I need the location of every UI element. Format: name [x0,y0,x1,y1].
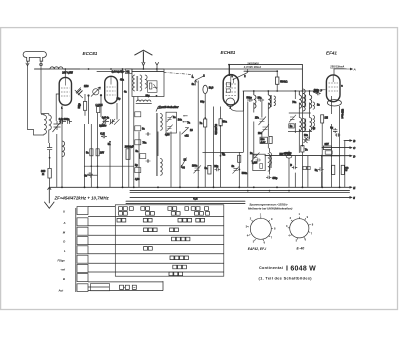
trimmer C7 row arrows [102,119,120,125]
trimmer C13 [262,125,270,134]
wire extra v 101 [100,95,102,117]
core lines FM transformer [136,76,139,91]
trimmer C18 100n [194,165,202,173]
switch S4 contact a [233,78,235,80]
svg-text:ECC81: ECC81 [83,51,98,56]
wire v243 [243,91,245,152]
junction dot antenna node [49,157,51,159]
svg-text:0,1μ 200μ: 0,1μ 200μ [59,119,70,121]
variable capacitor CV1 arrow [91,87,101,97]
svg-text:250/13kmA: 250/13kmA [329,64,344,68]
antenna arrowhead left [26,63,29,66]
wire extra h 175 [85,174,98,176]
wire IF rail [243,90,319,92]
wire table top line 1 [126,200,245,202]
capacitor C17 450p [266,176,272,179]
tube V4 anode lead [332,75,334,82]
wafer square row9 [77,284,88,292]
svg-text:1μ/25ν: 1μ/25ν [99,126,107,128]
IF1 coil small c [274,96,276,106]
switch bank row line 2 [88,225,224,227]
wire v321.6 low [321,156,323,188]
terminal C arrow [349,147,352,149]
svg-text:L: L [64,249,66,253]
wire v309.5 [309,103,311,139]
wafer square row3 [77,227,88,235]
switch bank top ladder [88,205,115,207]
tube V4 EF41 envelope [326,75,340,102]
tube V4 base ellipse [327,100,341,106]
svg-text:I 6048 W: I 6048 W [286,265,316,272]
IF2 core [304,95,307,107]
resistor R11 [269,136,272,143]
wire FM box left down [133,97,135,188]
coil L7 FM c [145,75,147,88]
wire v 220.5 [220,107,222,188]
resistor R13 [208,165,211,174]
svg-text:1M: 1M [325,117,328,120]
wire tube V1 cathode down [61,106,63,188]
junction dot mid link a [90,165,92,167]
svg-text:ECH81: ECH81 [221,50,236,55]
svg-text:14a: 14a [178,118,183,121]
junction dots ground bus [61,186,63,188]
variable capacitor CV1 [93,89,99,95]
terminal E arrow [350,186,353,188]
box converter [253,154,265,170]
svg-text:4,00: 4,00 [165,133,170,136]
switch bank row line 7 [88,271,224,273]
coil L8 ferrite rod [136,100,152,103]
wire extra v 88.5 [88,96,90,125]
svg-text:FD/ge: FD/ge [58,258,66,262]
ground symbol main [44,187,54,208]
capacitor C6 3n [87,172,93,177]
junction dot 5a node [220,155,222,157]
IF1 coil top b [268,91,270,108]
capacitor C23 [335,133,340,137]
tube V2 grid dashes [107,87,116,95]
wafer square row4 [77,237,88,245]
box 1a [289,124,294,128]
diode D4 [304,139,308,143]
aut box link [124,286,136,288]
svg-text:0,94•2,05μ: 0,94•2,05μ [112,70,125,73]
wafer square row6 [77,255,88,263]
capacitor C25 5n [318,167,324,171]
wire v302.4 low [301,91,303,187]
switch S2 arm [182,127,189,134]
box converter inner cap [256,158,262,162]
wire h IF low [288,131,312,133]
svg-text:Ferrit-Schalter: Ferrit-Schalter [159,105,180,109]
contact boxes row5 [144,247,153,251]
svg-text:500Ω: 500Ω [280,79,288,83]
wire v247.8 [247,102,249,188]
junction dot mid link b [97,165,99,167]
coil L14 ratio det c [313,116,315,130]
core lines L9 [155,113,158,176]
wire h IF mid [289,112,311,114]
wire v339.6 [339,106,341,187]
switch bank row line 6 [88,262,224,264]
wafer square row8 [77,274,88,282]
component box small a [135,112,141,117]
wire line 5 [130,196,350,198]
switch S3 arm [195,76,205,81]
contact boxes row7 [173,265,187,269]
wire antenna right drop [40,61,42,113]
IF2 coil b [310,91,312,108]
tuning box right [166,112,177,133]
junction dot rail a [276,90,278,92]
trimmer C4 osc [75,88,83,99]
wire ECH top feed [228,65,231,76]
trimmer C28 inside [167,116,173,123]
junction dot 5a [109,141,111,143]
box 02u [325,151,332,154]
tube base EAF42 ticks [247,216,273,241]
wire vertical right HT [301,65,303,91]
wire EF41 anode up [334,69,347,75]
wire osc v2 [90,124,92,187]
junction dot EF41 top [333,68,335,70]
svg-text:E–40: E–40 [297,247,305,251]
tube V4 grid dashes [329,83,339,91]
junction dots misc [204,117,206,119]
wire line B [344,140,350,142]
tube base diagram EAF42 circle [250,218,271,239]
tube V1 anode lead [64,78,66,86]
svg-text:100p: 100p [314,89,320,92]
component box small c [135,140,141,145]
switch S2 contact dots [183,115,184,116]
contact boxes row1 upper [119,207,209,211]
wire mid h link [84,165,134,167]
wire extra v 117 [116,103,118,120]
wire box 180 down [179,132,181,188]
wire v331.4 [330,96,332,187]
wire trimmer drop [56,134,58,187]
junction dots top bus [88,68,90,70]
tube V3 grid dashes [226,84,237,96]
resistor R9 [219,119,222,126]
svg-text:500n: 500n [242,173,248,175]
wire cathode branch [49,153,51,168]
svg-text:245/290V: 245/290V [246,61,259,65]
wire ground bus [50,186,350,188]
tube V2 anode lead [110,77,112,85]
wire v307.9 [307,156,309,188]
switch bank bottom ladder 1 [88,281,163,283]
IF1 core [270,95,273,107]
component box small e [135,168,141,173]
capacitor C22 0u [333,128,337,133]
coil L2 antenna primary [41,114,46,135]
tube V3 anode lead [226,75,231,93]
wire box 171 down [170,132,172,188]
trimmer C20 3n [233,166,240,174]
coil L12 ratio det a [303,89,305,111]
svg-text:ZF=454/472kHz + 10,7MHz: ZF=454/472kHz + 10,7MHz [54,195,110,200]
wire v 213.5 [213,107,215,188]
svg-text:EAF42, EF-I: EAF42, EF-I [248,247,266,251]
switch bank outer rect [115,205,224,276]
wire v289 low [288,151,290,188]
coil L5 FM a [133,75,135,91]
capacitor C27 cl [146,159,151,162]
svg-text:D: D [63,240,65,244]
dipole FM antenna [134,50,152,63]
svg-text:C,N: C,N [193,197,197,200]
inner box FM [148,81,158,93]
trimmer C1 padder [53,121,61,132]
resistor R5 [96,149,99,156]
trimmer C12 [259,117,267,126]
capacitor C24 ef cath [292,166,298,170]
wire osc v3 [97,113,99,188]
resistor R3 [97,107,100,113]
capacitor C2 1n [47,143,52,153]
wire ECH column 198 [197,81,199,188]
wire v295 low [294,156,296,188]
resistor R8 [204,119,207,127]
wire h 152.4 [203,151,244,153]
IF2 coil a [299,91,301,108]
contact boxes row6 [170,256,188,260]
switch bank bottom ladder 2 [88,281,163,291]
svg-text:E: E [353,186,355,190]
dash-dot tuning link [164,72,194,74]
capacitor C19 20p [215,167,221,171]
capacitor C21 100p [316,92,321,96]
svg-text:4,7/13V 28mA: 4,7/13V 28mA [243,65,261,69]
resistor R10 500ohm [276,77,279,84]
svg-text:50V: 50V [280,154,285,156]
tube base E40 ticks [288,217,311,240]
coil L6 FM b [140,75,142,91]
resistor R1 300ohm [48,169,51,179]
capacitor C5 pair 4n [103,119,115,124]
svg-text:10n: 10n [258,97,263,99]
wire v262 [261,102,263,142]
wire v253.8 low [253,103,255,158]
wire extra v 110 [109,142,111,188]
wire v322 low [321,123,323,187]
component box small b [135,126,141,131]
wire line D [322,155,340,157]
capacitor C10 500p [247,98,253,102]
svg-text:1,1/4,5: 1,1/4,5 [96,104,104,107]
svg-text:10n: 10n [304,135,309,137]
antenna AM mast [23,52,46,62]
coil L13 ratio det b [313,102,315,109]
pin arrow P [321,89,326,91]
svg-text:(1. Teil des Schaltbildes): (1. Teil des Schaltbildes) [259,277,313,281]
switch bank row line 3 [88,234,224,236]
svg-text:B: B [353,139,355,143]
pin numbers E40 [286,212,314,242]
tube V3 ECH81 envelope [223,75,238,105]
resistor R15 60V [323,146,331,150]
resistor R6 200 [126,149,130,160]
wire top bus [34,68,302,70]
capacitor C8 CM [101,135,107,138]
wire R1 to bus [49,178,51,187]
resistor R16 [332,165,335,174]
core L11 [269,155,272,168]
switch bank row line 5 [88,253,224,255]
junction dot v239 [238,169,240,171]
tube V1 ECC81 triode a envelope [59,77,71,105]
wire ECH base to rail [230,91,243,111]
switch S4 stub [234,69,248,83]
terminal A arrow [347,68,353,70]
svg-text:1,: 1, [192,76,194,79]
junction dot V1 grid [87,94,89,96]
wafer square row5 [77,246,88,254]
trimmer C16 [289,115,296,123]
terminal D arrow [340,155,352,157]
wire R10 bottom [276,84,278,91]
svg-text:60p: 60p [200,101,205,104]
wire v295 [294,91,296,133]
contact boxes row8 [169,272,183,275]
wire anode line ECH [244,70,277,72]
svg-text:20V 0,5W: 20V 0,5W [62,71,73,74]
wire v 128 [128,72,130,188]
wire lamp down [204,94,206,119]
svg-text:1/10: 1/10 [84,86,89,88]
junction dot FM out [156,95,158,97]
switch S4 anode arm [234,73,248,80]
tube V2 ECC81 triode b envelope [105,76,118,103]
junction dots IF rail [253,90,255,92]
trimmer C29 inside [167,125,173,132]
wire R8 down [204,127,206,187]
wire v239 [238,153,240,188]
capacitor C15 oval [286,155,292,158]
svg-text:20p: 20p [214,166,219,168]
box unit 502 [260,137,268,143]
wire double line 2 [130,192,350,194]
svg-text:A: A [63,221,66,225]
svg-text:UZF•fact: UZF•fact [340,109,343,119]
component box small d [140,154,146,159]
svg-text:100n: 100n [192,166,198,168]
resistor R14 1M [321,115,324,123]
switch S2 contact stubs [184,116,188,128]
capacitor C26 cl [146,132,151,135]
tube V1 grid dashes [61,88,70,96]
svg-text:+12: +12 [185,134,190,137]
svg-text:30μ: 30μ [146,94,151,97]
svg-text:500p: 500p [247,97,253,99]
tube base diagram E40 circle [290,219,309,238]
wire osc line [97,71,164,73]
wire table top line 2 [126,203,245,205]
svg-text:Meßwerte bei UKW(Mittelwellen): Meßwerte bei UKW(Mittelwellen) [248,206,292,210]
wire line F [265,155,350,157]
switch S1 ferrite arm [156,106,161,112]
wire v 122 [122,69,124,187]
svg-text:200•1μF: 200•1μF [125,147,134,149]
svg-text:Continental: Continental [259,266,283,270]
wire L3 top [41,113,49,115]
contact boxes row aut [120,285,137,289]
contact boxes row4 [172,237,190,241]
coil L3 antenna secondary [49,114,52,144]
wire box 158 down [157,132,159,157]
capacitor C3 coupling pair [59,119,72,124]
svg-text:C,M: C,M [100,133,104,136]
trimmer C9 FM [153,84,158,89]
svg-text:02: 02 [126,70,130,74]
wire R10 top [276,71,278,77]
IF1 coil top a [254,91,256,108]
capacitor C11 10n [258,98,264,102]
resistor R2 500k [83,102,86,111]
antenna ring right [40,63,43,66]
wire osc v1 [84,124,86,187]
wafer square row1 [77,207,88,215]
contact box pair mid right [303,166,310,169]
svg-text:A: A [353,68,356,72]
wire double line 1 [130,190,350,192]
box 50V [285,152,290,155]
wire box 139 down [138,132,140,188]
contact boxes row2 [117,218,205,222]
svg-text:14,0: 14,0 [209,86,214,89]
coil L1 antenna input [34,67,80,69]
svg-text:B: B [63,277,65,281]
switch S3 arrow up [194,80,197,86]
resistor R17 [341,165,344,174]
wire HT line [229,64,302,66]
switch bank row line 4 [88,244,224,246]
junction dot rail b [302,90,304,92]
junction dot V1 anode [64,68,66,70]
FM tuner box [132,69,164,97]
resistor R7 inside FM [149,83,152,89]
terminal 5 arrow [350,197,352,199]
svg-text:85,05•kHz: 85,05•kHz [214,124,216,135]
coil L9 AM antenna winding upper [160,114,162,131]
svg-text:4μ5 4n: 4μ5 4n [102,117,110,120]
lamp dial [203,85,208,93]
wafer square row2 [77,218,88,226]
contact boxes row3 [144,228,179,232]
pin numbers EAF42 [246,212,276,244]
box converter inner res [260,164,263,169]
switch S4 contact b [247,71,249,73]
coil L9b AM antenna winding lower [160,159,162,176]
wafer connector spine [75,208,77,292]
svg-text:4,00: 4,00 [135,178,140,181]
resistor R18 mid [238,155,241,162]
wire R2 up [84,94,86,116]
svg-text:60V: 60V [325,143,330,146]
svg-text:450p: 450p [272,177,278,180]
dipole stub arrow [155,62,158,71]
wafer square row7 [77,264,88,272]
wire tube V1 anode feed [64,69,66,78]
aut wide box [91,284,110,291]
junction dot CV1 [100,94,102,96]
coil L10 lower [270,148,272,175]
wire FM box mid down [137,97,139,102]
contact boxes row1 lower [119,212,210,216]
